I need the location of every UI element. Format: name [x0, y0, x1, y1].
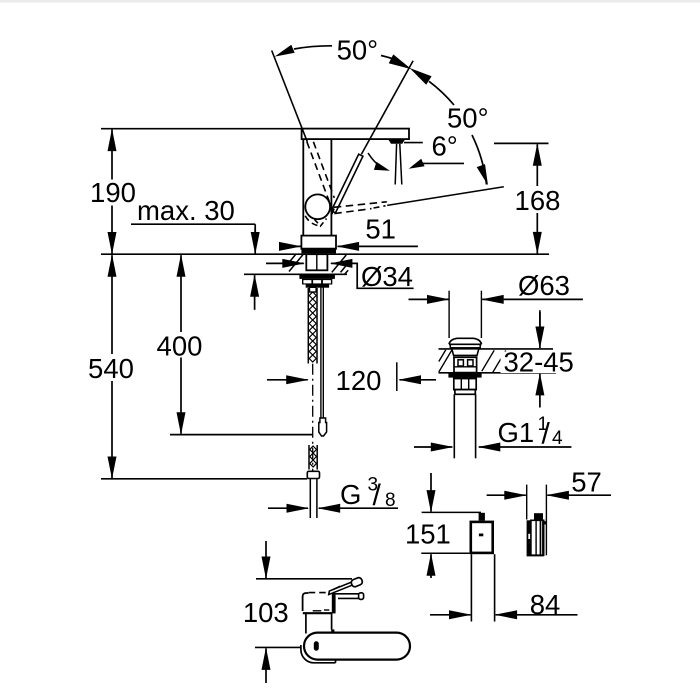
slotted mounting ring: [302, 279, 332, 285]
bracket side ext left: [526, 485, 528, 520]
dim 540: [111, 255, 113, 354]
dim 400: [180, 255, 182, 332]
dim 51: [280, 245, 301, 247]
svg-text:151: 151: [405, 519, 451, 550]
bracket side body: [531, 520, 544, 555]
arc 50deg top: [294, 46, 332, 49]
svg-text:51: 51: [365, 214, 396, 245]
profile bottom extension line: [255, 646, 301, 648]
washer: [299, 275, 335, 279]
handle dashed arc under pivot: [305, 216, 321, 226]
drain body with windows: [454, 357, 477, 372]
dim 103: [265, 541, 267, 578]
countertop line: [101, 253, 549, 255]
svg-text:/: /: [373, 479, 382, 512]
pull rod: [320, 288, 322, 419]
handle dashed forward position: [307, 142, 329, 202]
drain cap dome: [449, 338, 482, 344]
bracket front tube: [470, 554, 472, 621]
counter hatch left: [289, 255, 303, 272]
base plate hole: [314, 641, 319, 650]
handle swing line right: [361, 61, 413, 155]
profile body: [303, 593, 309, 611]
svg-text:G1: G1: [498, 417, 535, 448]
hose top connector: [310, 287, 317, 292]
handle swing line left: [272, 51, 308, 142]
extension line faucet top (190 upper): [101, 128, 302, 130]
bracket side right tick: [544, 521, 547, 524]
counter hatch right: [332, 255, 346, 272]
base under-plate: [301, 645, 336, 663]
dim 168: [536, 144, 538, 186]
hose reach line (540 lower): [101, 478, 307, 480]
bracket side left band: [527, 520, 531, 555]
base plate stadium: [304, 633, 410, 660]
svg-text:32-45: 32-45: [504, 347, 574, 378]
sink deck hatch right: [482, 350, 494, 371]
svg-text:G: G: [340, 479, 361, 510]
profile lever rod: [336, 593, 359, 595]
svg-text:400: 400: [157, 331, 203, 362]
faucet base flange: [301, 236, 336, 249]
lower clamp band: [306, 285, 329, 288]
dim 57: [487, 494, 526, 496]
bracket side ext right: [545, 485, 547, 556]
faucet body left edge: [302, 139, 304, 236]
pull-rod length line (400 lower): [170, 434, 313, 436]
bracket ext line bottom: [421, 552, 469, 554]
bracket front body: [471, 522, 493, 553]
drain extension lines dia63: [448, 291, 450, 338]
svg-text:103: 103: [243, 597, 289, 628]
arc 50deg right: [429, 81, 454, 105]
profile lever tip: [350, 577, 363, 588]
svg-text:120: 120: [336, 365, 382, 396]
dim 32-45: [539, 310, 541, 330]
bracket side bottom edge: [527, 554, 544, 556]
profile body top dashes: [309, 592, 330, 594]
svg-text:50°: 50°: [447, 103, 489, 134]
dim G1 1/4 arrows: [414, 446, 452, 448]
drain tailpipe: [453, 394, 455, 458]
svg-text:/: /: [542, 418, 551, 451]
bracket front bump: [479, 513, 485, 521]
profile body small diagonal: [333, 586, 341, 590]
bracket front inner mark: [479, 534, 483, 537]
svg-text:Ø34: Ø34: [361, 261, 413, 292]
bracket ext line top: [422, 511, 481, 513]
svg-text:4: 4: [552, 428, 563, 449]
svg-text:50°: 50°: [337, 34, 379, 65]
profile body inner dashes: [313, 610, 322, 612]
svg-text:168: 168: [515, 185, 561, 216]
spout height line (168 upper): [494, 142, 549, 144]
spout stream lines: [395, 144, 396, 185]
bracket side bump: [534, 513, 543, 520]
flexible supply hose braided: [307, 288, 309, 364]
dim 190: [111, 130, 113, 180]
page top border: [0, 0, 700, 3]
drain flange nut: [448, 373, 481, 377]
handle pivot circle: [305, 194, 330, 219]
svg-text:540: 540: [88, 353, 134, 384]
drain neck: [452, 349, 479, 356]
svg-text:Ø63: Ø63: [518, 270, 570, 301]
6deg leader to aerator: [404, 142, 423, 144]
arc 6deg: [368, 153, 381, 167]
counter underside line (max.30 lower): [244, 273, 347, 275]
dim dia63: [409, 298, 449, 300]
sink deck hatch left: [439, 350, 452, 372]
svg-text:6°: 6°: [432, 131, 458, 162]
dim 120: [267, 379, 308, 381]
svg-text:190: 190: [90, 177, 136, 208]
dim dia34: [266, 262, 304, 264]
dim 84: [430, 614, 471, 616]
profile stem: [305, 613, 307, 633]
dim 151: [430, 473, 432, 512]
spout aerator: [388, 139, 405, 144]
faucet spout plate: [302, 129, 409, 140]
sink deck band: [439, 348, 554, 350]
mounting shank nut: [306, 254, 327, 270]
profile top extension line: [256, 578, 352, 580]
faucet body right edge: [330, 139, 332, 236]
lower hose ferrule: [307, 471, 319, 478]
lower hose tube: [309, 479, 311, 518]
svg-text:57: 57: [571, 467, 602, 498]
drain lower step: [455, 390, 475, 395]
pull rod knob: [319, 418, 327, 436]
hose center dash-dot line: [312, 364, 314, 471]
drain slotted nut: [454, 378, 476, 390]
svg-text:84: 84: [530, 589, 561, 620]
lower hose braided (G3/8): [308, 445, 310, 470]
handle tip path line: [387, 187, 504, 206]
profile lever bar: [329, 581, 355, 595]
handle dashed down position: [334, 202, 387, 208]
svg-text:max. 30: max. 30: [137, 195, 235, 226]
dim G3/8 arrows: [268, 507, 308, 509]
handle lever (raised): [331, 154, 363, 213]
